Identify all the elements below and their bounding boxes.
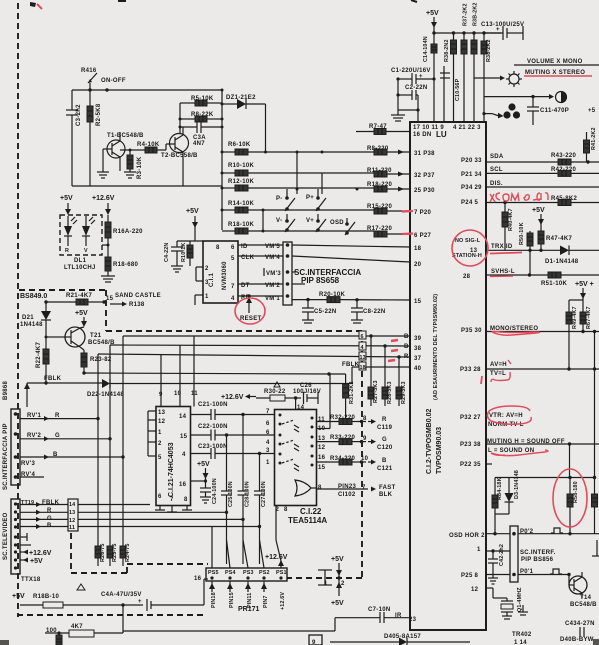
power +5V TTX	[20, 558, 43, 566]
svg-text:TTX18: TTX18	[21, 577, 41, 583]
labels PIN18 PIN15 PIN11 PIN7 +12.6V rotated	[209, 581, 286, 610]
capacitor C22-100N row to TEA pin8	[191, 424, 275, 441]
svg-text:1 14: 1 14	[514, 640, 527, 645]
svg-text:16: 16	[318, 455, 326, 461]
svg-text:BC548/B: BC548/B	[570, 602, 597, 608]
wire MUTING row pin 38	[486, 439, 599, 454]
svg-text:C14-104N: C14-104N	[423, 36, 429, 62]
svg-text:FAST: FAST	[379, 485, 396, 491]
svg-text:R: R	[47, 508, 52, 514]
svg-text:R29-3K3: R29-3K3	[401, 381, 407, 404]
connector pins 1,2 on dashed module line	[318, 556, 345, 607]
red annotation: underline SVHS-L	[490, 275, 513, 278]
resistor R21-4K7	[44, 293, 105, 305]
wire far-right vertical rail	[594, 332, 596, 478]
svg-text:STATION-H: STATION-H	[452, 253, 482, 259]
svg-text:FBLK: FBLK	[44, 376, 62, 382]
svg-text:VM'2: VM'2	[265, 283, 280, 289]
svg-text:OSD: OSD	[330, 220, 344, 226]
capacitor C3A 4N7	[180, 121, 222, 147]
resistor R18-680 vertical	[105, 257, 138, 276]
right pin labels inside IC	[460, 158, 482, 593]
transistor T14 BC548/B	[569, 572, 597, 608]
svg-text:R31-2K2: R31-2K2	[349, 381, 355, 404]
svg-text:MUTING X STEREO: MUTING X STEREO	[525, 70, 585, 76]
capacitor C26 100J/16V	[293, 383, 321, 404]
svg-text:8: 8	[363, 416, 367, 422]
junctions TTX rows to cap verticals	[225, 511, 228, 514]
vertical taps from bus to RGB resistors	[371, 336, 399, 387]
svg-text:4N7: 4N7	[193, 141, 205, 147]
svg-text:PR171: PR171	[238, 606, 260, 613]
svg-text:C8-22N: C8-22N	[363, 309, 385, 315]
resistor R29-3K3 vertical	[396, 381, 407, 406]
capacitor C11-470P	[527, 97, 569, 125]
wire riser and C7-10N IR row to pin 23	[335, 607, 410, 631]
resistor R58-180 vertical	[567, 478, 579, 534]
svg-text:G: G	[55, 433, 60, 439]
svg-text:P+: P+	[306, 195, 314, 201]
transistor T1-BC548/B	[103, 132, 144, 172]
capacitor C25-100N	[221, 435, 234, 564]
left pin labels	[409, 151, 435, 623]
resistor R4-10K	[137, 142, 166, 153]
capacitor C21-100N row to TEA pin7	[191, 402, 275, 420]
svg-text:13: 13	[69, 510, 75, 516]
wire C2 to IC pin 10	[417, 95, 419, 122]
svg-text:15: 15	[318, 465, 326, 471]
transistor T21 BC548/B	[45, 327, 116, 350]
capacitor C4-22N	[164, 241, 183, 272]
wire RV'3 B row	[20, 452, 125, 467]
resistor R18-220	[367, 182, 410, 192]
wire RD row	[238, 294, 283, 301]
svg-text:6: 6	[158, 494, 162, 500]
wire ID row	[238, 244, 283, 250]
svg-text:D21: D21	[22, 315, 34, 321]
resistor R24-75 vertical	[120, 457, 131, 566]
svg-text:TEA5114A: TEA5114A	[288, 516, 327, 525]
svg-text:TR402: TR402	[512, 632, 532, 638]
resistor R43-220	[551, 153, 599, 165]
connector TTX19 box	[11, 499, 34, 574]
svg-text:P23 38: P23 38	[460, 442, 481, 448]
svg-text:5: 5	[231, 256, 235, 262]
resistor R5-10K	[180, 96, 222, 106]
svg-text:R18-10K: R18-10K	[228, 222, 254, 228]
resistor R15-220	[367, 204, 410, 214]
resistor R49-4K7 vertical	[566, 300, 578, 369]
resistor R23-82 vertical	[81, 350, 112, 375]
svg-text:C23-100N: C23-100N	[198, 444, 228, 450]
svg-text:16: 16	[194, 576, 202, 582]
pin column box 14-11	[68, 499, 78, 531]
svg-text:VTR: AV=H: VTR: AV=H	[489, 413, 523, 419]
red annotation: oval around NO SIG-L STATION-H	[452, 230, 488, 266]
wire vertical x265 from DZ1	[265, 104, 267, 152]
red annotation: corner tick top-left	[37, 4, 42, 9]
svg-text:AV=H: AV=H	[490, 362, 507, 368]
svg-text:+12.6V: +12.6V	[265, 554, 288, 561]
node 15 SAND CASTLE R138	[106, 293, 161, 308]
svg-text:9: 9	[363, 436, 367, 442]
capacitor C8-22N	[351, 300, 385, 323]
wire P24 row	[486, 201, 558, 204]
wires top pins of 4053 up to bus	[161, 336, 194, 407]
resistor R26-75 vertical	[95, 419, 106, 566]
svg-text:1: 1	[205, 294, 209, 300]
resistor R14-10K	[221, 201, 375, 213]
wire T2 collector up to R5/R8 node	[179, 103, 181, 133]
bus line B y345 to pin 38	[110, 344, 410, 439]
resistor R30-22	[256, 382, 301, 401]
misc right edge stub	[592, 540, 599, 556]
wire PIN23 FAST BLK row	[317, 484, 396, 498]
power +5V above NVM	[177, 208, 203, 241]
svg-text:R40-4K7: R40-4K7	[508, 208, 514, 231]
svg-text:15: 15	[180, 434, 188, 440]
svg-text:6: 6	[361, 334, 364, 340]
svg-text:14: 14	[69, 502, 75, 508]
svg-text:11: 11	[191, 391, 198, 397]
svg-text:NO SIG-L: NO SIG-L	[455, 238, 481, 244]
svg-text:+: +	[496, 27, 500, 33]
red annotation: circle around RESET	[235, 298, 265, 324]
svg-text:R21-4K7: R21-4K7	[66, 293, 92, 299]
resistor R18-10K	[222, 210, 374, 234]
resistor R3B-2K2 vertical	[471, 2, 479, 122]
node RESET with arrow	[240, 297, 262, 322]
svg-text:13: 13	[158, 410, 166, 416]
svg-text:31 P38: 31 P38	[414, 151, 435, 157]
TEA left pin labels	[266, 421, 270, 466]
label DL1 LTL10CHJ	[64, 258, 96, 271]
svg-text:7: 7	[362, 485, 366, 491]
resistor R2-5K8 vertical	[87, 90, 102, 186]
resistor R40-4K7 vertical	[502, 203, 514, 251]
wire TRX ID row pin 13	[486, 244, 560, 252]
wire long rail from T21 emitter to x329	[84, 373, 329, 374]
svg-text:V-: V-	[276, 218, 282, 224]
svg-text:VOLUME X MONO: VOLUME X MONO	[527, 59, 583, 65]
svg-text:D22-1N4148: D22-1N4148	[87, 392, 124, 398]
power +5V mid right	[532, 207, 545, 250]
resistor R25-75 vertical	[107, 439, 118, 566]
svg-text:T2-BC558/B: T2-BC558/B	[161, 153, 198, 159]
svg-text:LU: LU	[436, 130, 447, 139]
svg-text:P0'2: P0'2	[520, 529, 534, 535]
svg-text:SCL: SCL	[490, 167, 503, 173]
svg-text:+5V: +5V	[30, 558, 43, 565]
svg-text:39: 39	[414, 336, 422, 342]
svg-text:28: 28	[463, 274, 471, 280]
switch V-	[276, 214, 295, 232]
svg-text:+: +	[138, 599, 142, 605]
svg-text:P35 30: P35 30	[461, 328, 482, 334]
svg-text:4 21 22 3: 4 21 22 3	[453, 125, 481, 131]
svg-text:R10-1K: R10-1K	[181, 243, 187, 262]
wire VM'3 row to IC pin 18	[292, 271, 296, 273]
svg-text:+5V: +5V	[532, 207, 545, 214]
svg-text:6 P27: 6 P27	[414, 233, 432, 239]
svg-text:9: 9	[312, 640, 316, 645]
connector VM box	[283, 242, 292, 305]
svg-text:DL1: DL1	[74, 258, 87, 264]
svg-text:R84-18K: R84-18K	[497, 477, 503, 500]
node NO SIG-L / STATION-H inside IC	[452, 238, 482, 259]
svg-text:4: 4	[361, 345, 364, 351]
wire AV=H TV=L row pin 28	[486, 362, 599, 377]
capacitor C10-56P	[440, 66, 461, 122]
connector RV box	[11, 409, 20, 485]
svg-text:R14-10K: R14-10K	[228, 201, 254, 207]
bus line A y336 to pin 39	[123, 334, 410, 457]
wire pin1 row to C42	[486, 549, 510, 552]
capacitor C5-22N	[302, 300, 336, 323]
svg-text:R3-10K: R3-10K	[137, 156, 143, 179]
wire SCL row	[486, 167, 558, 173]
svg-text:PS4: PS4	[225, 570, 236, 576]
ground stubs under 4053	[155, 506, 192, 513]
svg-text:C434-27N: C434-27N	[565, 621, 595, 627]
capacitor C24-100N	[200, 478, 218, 504]
svg-text:SVHS-L: SVHS-L	[491, 269, 515, 275]
resistor R42-220	[551, 167, 599, 176]
svg-text:B: B	[404, 344, 409, 350]
svg-text:B: B	[404, 334, 409, 340]
wire MONO/STEREO row pin 30	[486, 326, 599, 333]
resistor R38-2K2 vertical right	[481, 33, 492, 122]
svg-text:C120: C120	[377, 445, 393, 451]
svg-text:BLK: BLK	[379, 492, 393, 498]
svg-text:4: 4	[266, 440, 270, 446]
svg-text:PIN7: PIN7	[263, 595, 269, 608]
label TR402	[512, 632, 532, 645]
svg-text:PIP 8S658: PIP 8S658	[301, 276, 340, 285]
connector PR171	[194, 568, 287, 582]
svg-text:+5V: +5V	[331, 556, 344, 563]
svg-text:R26-75: R26-75	[100, 543, 106, 562]
wire top horizontal	[72, 89, 222, 91]
red annotation: scribble under L = SOUND ON	[491, 450, 548, 456]
svg-text:12: 12	[158, 419, 166, 425]
wire FBLK row TTX	[20, 500, 150, 507]
resistor R6-10K	[222, 142, 374, 155]
svg-text:D1-1N4148: D1-1N4148	[545, 259, 579, 265]
R84/D3/R58 network top rail	[495, 444, 596, 479]
resistor R16A-220 vertical	[102, 215, 143, 257]
power +5V to 4053 pin16	[191, 461, 210, 483]
resistor R28-3K3 vertical	[382, 381, 393, 406]
svg-text:TVPOSM90.03: TVPOSM90.03	[436, 427, 443, 474]
svg-text:+5V: +5V	[331, 600, 344, 607]
svg-text:2: 2	[158, 441, 162, 447]
svg-text:C21-100N: C21-100N	[198, 402, 228, 408]
wire SVHS-L row pin 28	[486, 269, 548, 277]
resistor R8-220	[367, 146, 410, 155]
svg-text:SC.INTERFACCIA PIP: SC.INTERFACCIA PIP	[3, 423, 9, 490]
IC C.I.21-74HC4053	[156, 391, 198, 506]
wire TEA pin 11 row / R32-220 to R C119	[317, 415, 393, 431]
diode D405-8A157	[330, 634, 470, 645]
svg-text:16 DN: 16 DN	[413, 132, 432, 138]
svg-text:R67-4K7: R67-4K7	[586, 306, 592, 329]
wire bottom rail	[123, 630, 335, 632]
power +5V to T21	[75, 310, 88, 327]
wire TEA pin 16 row / R34-220 to B C121	[317, 455, 393, 472]
red annotation: oval VTR AV=H NORM TV-L	[487, 406, 531, 424]
switch OSD	[330, 218, 355, 235]
svg-text:3: 3	[205, 280, 209, 286]
svg-text:PIN15: PIN15	[229, 592, 235, 608]
svg-text:C.I.2-TVPOSMB0.02: C.I.2-TVPOSMB0.02	[426, 409, 433, 474]
capacitor C2-22N	[396, 85, 427, 100]
svg-text:4: 4	[182, 452, 186, 458]
svg-text:R6-10K: R6-10K	[228, 142, 251, 148]
svg-text:+5V: +5V	[75, 310, 88, 317]
svg-text:12: 12	[318, 445, 326, 451]
switch P+	[306, 189, 326, 211]
capacitor C28-100N	[238, 415, 251, 565]
svg-text:T21: T21	[90, 333, 102, 339]
svg-text:T1-BC548/B: T1-BC548/B	[107, 133, 144, 139]
svg-text:1: 1	[158, 430, 162, 436]
svg-text:16: 16	[179, 482, 187, 488]
svg-text:+5V: +5V	[186, 208, 199, 215]
svg-text:C11-470P: C11-470P	[540, 108, 569, 114]
svg-text:D3-1N4148: D3-1N4148	[514, 470, 520, 499]
svg-text:23: 23	[409, 617, 417, 623]
svg-text:P-: P-	[276, 196, 283, 202]
wire risers from switch tops	[296, 152, 298, 194]
wire RV'1 R row	[20, 413, 100, 421]
wire TEA pin 13 row / R33-220 to G C120	[317, 435, 393, 451]
svg-text:RV'2: RV'2	[27, 433, 42, 439]
wire CLK row	[238, 255, 283, 261]
waveform glyph top	[551, 528, 563, 533]
svg-text:ON-OFF: ON-OFF	[101, 78, 126, 84]
node junctions	[88, 88, 91, 91]
wire bottom rail	[72, 185, 222, 187]
power +12.6V above PR171	[265, 554, 288, 568]
red underline under MUTING	[524, 75, 592, 77]
svg-text:+5V: +5V	[60, 195, 73, 202]
svg-text:C4-22N: C4-22N	[164, 243, 170, 262]
wires left pin stubs of 4053	[148, 411, 156, 456]
wire T1 emitter to R4	[119, 163, 121, 171]
node VM labels	[264, 244, 281, 302]
capacitor C4A-47U/35V	[101, 579, 208, 611]
svg-text:B9868: B9868	[3, 380, 9, 400]
capacitor C434-27N bottom right	[560, 621, 595, 643]
brightness icon (3 dots)	[482, 103, 520, 118]
power label +12.6V left	[92, 195, 115, 215]
resistor 100 vertical bottom left	[46, 628, 62, 645]
svg-text:4: 4	[231, 296, 235, 302]
wire vertical node column x222	[221, 90, 223, 230]
red annotation: dashes on RGB lines	[391, 340, 398, 341]
capacitor C3-2n2	[66, 90, 82, 186]
svg-text:NORM TV-L: NORM TV-L	[488, 422, 524, 428]
diode D22-1N4148	[87, 379, 352, 398]
svg-text:C4A-47U/35V: C4A-47U/35V	[101, 592, 142, 598]
svg-text:C27-100N: C27-100N	[261, 481, 267, 507]
svg-text:R18B-10: R18B-10	[33, 594, 59, 600]
svg-text:G: G	[382, 437, 387, 443]
svg-text:1N4148: 1N4148	[20, 322, 43, 328]
svg-text:15: 15	[414, 299, 422, 305]
svg-text:8: 8	[318, 485, 322, 491]
svg-text:7: 7	[266, 409, 270, 415]
wire SDA row	[486, 154, 590, 164]
svg-text:R24-75: R24-75	[125, 543, 131, 562]
diode D1-1N4148	[545, 246, 599, 266]
svg-text:8: 8	[216, 245, 220, 251]
capacitor C42-2n2	[488, 544, 505, 584]
svg-text:V: V	[84, 248, 88, 254]
svg-text:Q1-4MHZ: Q1-4MHZ	[517, 587, 523, 612]
svg-text:PIN23: PIN23	[338, 484, 357, 490]
svg-text:+12.6V: +12.6V	[29, 550, 52, 557]
wire join R84/D3 bottom	[493, 514, 509, 535]
svg-text:40: 40	[414, 366, 422, 372]
svg-text:R41-2K2: R41-2K2	[591, 127, 597, 150]
node VTR labels pin 27	[488, 413, 524, 428]
svg-text:8: 8	[184, 497, 188, 503]
wire to contrast icon	[484, 94, 555, 99]
svg-text:R47-4K7: R47-4K7	[546, 236, 572, 242]
svg-text:R3B-2K2: R3B-2K2	[473, 2, 479, 26]
wire +5V bus horizontal	[434, 32, 501, 34]
dashed module boundary BS849 top	[17, 290, 362, 615]
power +12.6V label mid	[221, 394, 256, 401]
resistor R10-10K	[221, 163, 375, 176]
svg-text:C10-56P: C10-56P	[455, 78, 461, 101]
svg-text:7: 7	[170, 497, 174, 503]
svg-text:1: 1	[266, 460, 270, 466]
svg-text:BS849.0: BS849.0	[20, 293, 47, 300]
resistor R11-220	[367, 168, 410, 177]
OR gate inside TEA	[295, 480, 317, 496]
connector P0'2 / P0'1 box	[510, 526, 534, 582]
capacitor C1-220U/16V	[391, 68, 436, 85]
svg-text:6: 6	[266, 430, 270, 436]
svg-text:C3-2h2: C3-2h2	[76, 104, 82, 126]
svg-text:6: 6	[231, 245, 235, 251]
svg-text:R2-5K8: R2-5K8	[96, 103, 102, 126]
component C14-104 on +5V wire	[423, 36, 437, 62]
svg-text:C24-100N: C24-100N	[212, 478, 218, 504]
svg-text:+5V +: +5V +	[575, 281, 594, 288]
svg-text:3: 3	[266, 448, 270, 454]
ground stubs TTX	[20, 533, 31, 545]
svg-text:R: R	[404, 354, 409, 360]
label SC.INTERF. PIP BS856	[520, 550, 556, 563]
wire FBLK row	[24, 376, 102, 407]
crystal Q1-4MHZ	[486, 587, 523, 619]
resistor R41-2K2 vertical	[584, 127, 598, 162]
svg-text:RV'3: RV'3	[21, 461, 36, 467]
resistor R12-10K	[221, 179, 375, 191]
resistor R22-4K7 vertical	[36, 342, 49, 383]
lamp icon (sun)	[474, 71, 522, 87]
pin numbers top edge	[413, 125, 481, 139]
pin boxes on dashed boundary	[359, 331, 366, 371]
svg-text:R23-82: R23-82	[90, 357, 112, 363]
svg-text:T14: T14	[580, 595, 592, 601]
svg-text:15: 15	[106, 296, 114, 302]
wire RV'2 G row	[20, 433, 112, 441]
